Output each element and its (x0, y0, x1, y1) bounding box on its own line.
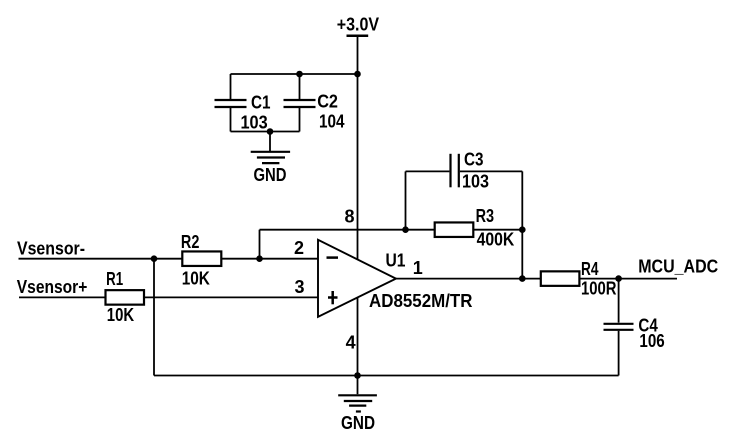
svg-text:4: 4 (346, 333, 356, 353)
svg-text:U1: U1 (386, 251, 406, 271)
svg-text:R2: R2 (181, 232, 200, 252)
svg-text:104: 104 (319, 112, 345, 132)
svg-text:400K: 400K (477, 229, 515, 249)
svg-text:MCU_ADC: MCU_ADC (638, 256, 718, 276)
svg-text:C2: C2 (317, 91, 338, 111)
svg-text:2: 2 (294, 238, 304, 258)
svg-text:Vsensor+: Vsensor+ (17, 277, 88, 297)
svg-text:100R: 100R (581, 279, 617, 299)
svg-text:C3: C3 (464, 149, 484, 169)
svg-text:Vsensor-: Vsensor- (17, 239, 85, 259)
svg-text:103: 103 (462, 172, 489, 192)
svg-text:AD8552M/TR: AD8552M/TR (369, 291, 473, 311)
svg-text:R3: R3 (476, 206, 495, 226)
svg-text:R4: R4 (581, 259, 599, 279)
svg-text:C1: C1 (251, 92, 271, 112)
svg-text:103: 103 (241, 113, 268, 133)
svg-text:106: 106 (639, 331, 664, 351)
svg-text:GND: GND (341, 413, 375, 433)
svg-text:10K: 10K (107, 305, 134, 325)
svg-text:3: 3 (295, 277, 305, 297)
svg-text:+3.0V: +3.0V (337, 15, 379, 35)
svg-text:R1: R1 (106, 269, 123, 289)
svg-text:8: 8 (345, 207, 355, 227)
svg-text:GND: GND (254, 165, 287, 185)
svg-text:1: 1 (413, 258, 423, 278)
svg-text:10K: 10K (182, 269, 210, 289)
